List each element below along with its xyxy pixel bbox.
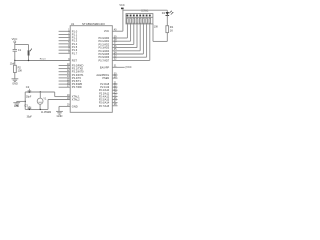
svg-text:GND: GND [12, 83, 18, 86]
svg-text:XTAL2: XTAL2 [72, 98, 80, 102]
svg-text:P1.7: P1.7 [72, 51, 78, 55]
svg-text:10K: 10K [154, 25, 159, 28]
svg-text:[VCC: [VCC [126, 66, 132, 69]
svg-text:P2.7/A15: P2.7/A15 [99, 105, 110, 108]
svg-text:VCC: VCC [119, 4, 124, 7]
svg-text:VCC: VCC [12, 37, 18, 41]
svg-text:30pF: 30pF [26, 96, 32, 98]
svg-text:GND: GND [72, 104, 78, 108]
svg-text:30pF: 30pF [27, 116, 33, 118]
svg-text:P0.7/AD7: P0.7/AD7 [98, 59, 109, 62]
svg-text:VCC: VCC [104, 30, 109, 33]
svg-text:RST: RST [72, 59, 78, 63]
svg-text:D1: D1 [162, 11, 166, 15]
svg-text:GND: GND [57, 114, 63, 118]
svg-text:1K: 1K [170, 28, 173, 32]
svg-text:STC89C52RC40I: STC89C52RC40I [82, 22, 105, 26]
svg-text:C2: C2 [26, 85, 30, 89]
svg-text:10K: 10K [18, 69, 23, 72]
svg-text:EA/VPP: EA/VPP [100, 65, 110, 69]
svg-text:U1: U1 [71, 22, 75, 26]
svg-text:GND: GND [14, 105, 20, 108]
svg-text:Reset: Reset [40, 57, 46, 60]
svg-text:P3.7/RD: P3.7/RD [72, 85, 82, 89]
svg-text:11.0592M: 11.0592M [41, 112, 51, 114]
svg-text:PSEN: PSEN [102, 77, 109, 80]
